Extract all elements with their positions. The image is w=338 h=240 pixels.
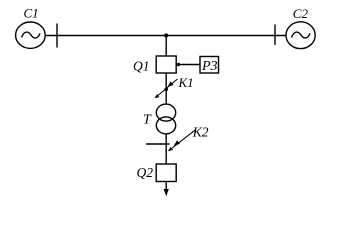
fault K2 [169, 130, 195, 150]
terminal tick left [56, 24, 58, 48]
svg-text:T: T [143, 113, 152, 128]
svg-text:C1: C1 [24, 6, 39, 21]
svg-text:Q2: Q2 [137, 165, 154, 180]
load arrow [164, 189, 169, 196]
fault K1 [156, 79, 178, 98]
wire bus to Q1 [165, 36, 167, 57]
relay P3 [200, 57, 219, 74]
svg-text:P3: P3 [201, 59, 218, 74]
wire Q1 to P3 [176, 64, 200, 66]
svg-text:K2: K2 [192, 125, 209, 140]
terminal tick right [274, 25, 276, 45]
wire Q1 to transformer [165, 73, 167, 104]
breaker Q2 [156, 164, 176, 182]
busbar tick low side [146, 143, 170, 145]
svg-text:Q1: Q1 [133, 58, 150, 73]
svg-text:C2: C2 [293, 6, 309, 21]
wire bus [45, 35, 286, 37]
breaker Q1 [156, 56, 176, 73]
wire transformer to Q2 [165, 134, 167, 164]
node at Q1 right [177, 63, 180, 66]
transformer T [156, 104, 175, 134]
wire Q2 to load [165, 182, 167, 191]
node junction on bus [164, 33, 168, 37]
svg-text:K1: K1 [178, 75, 194, 90]
generator C2 [286, 22, 315, 49]
generator C1 [16, 22, 46, 48]
